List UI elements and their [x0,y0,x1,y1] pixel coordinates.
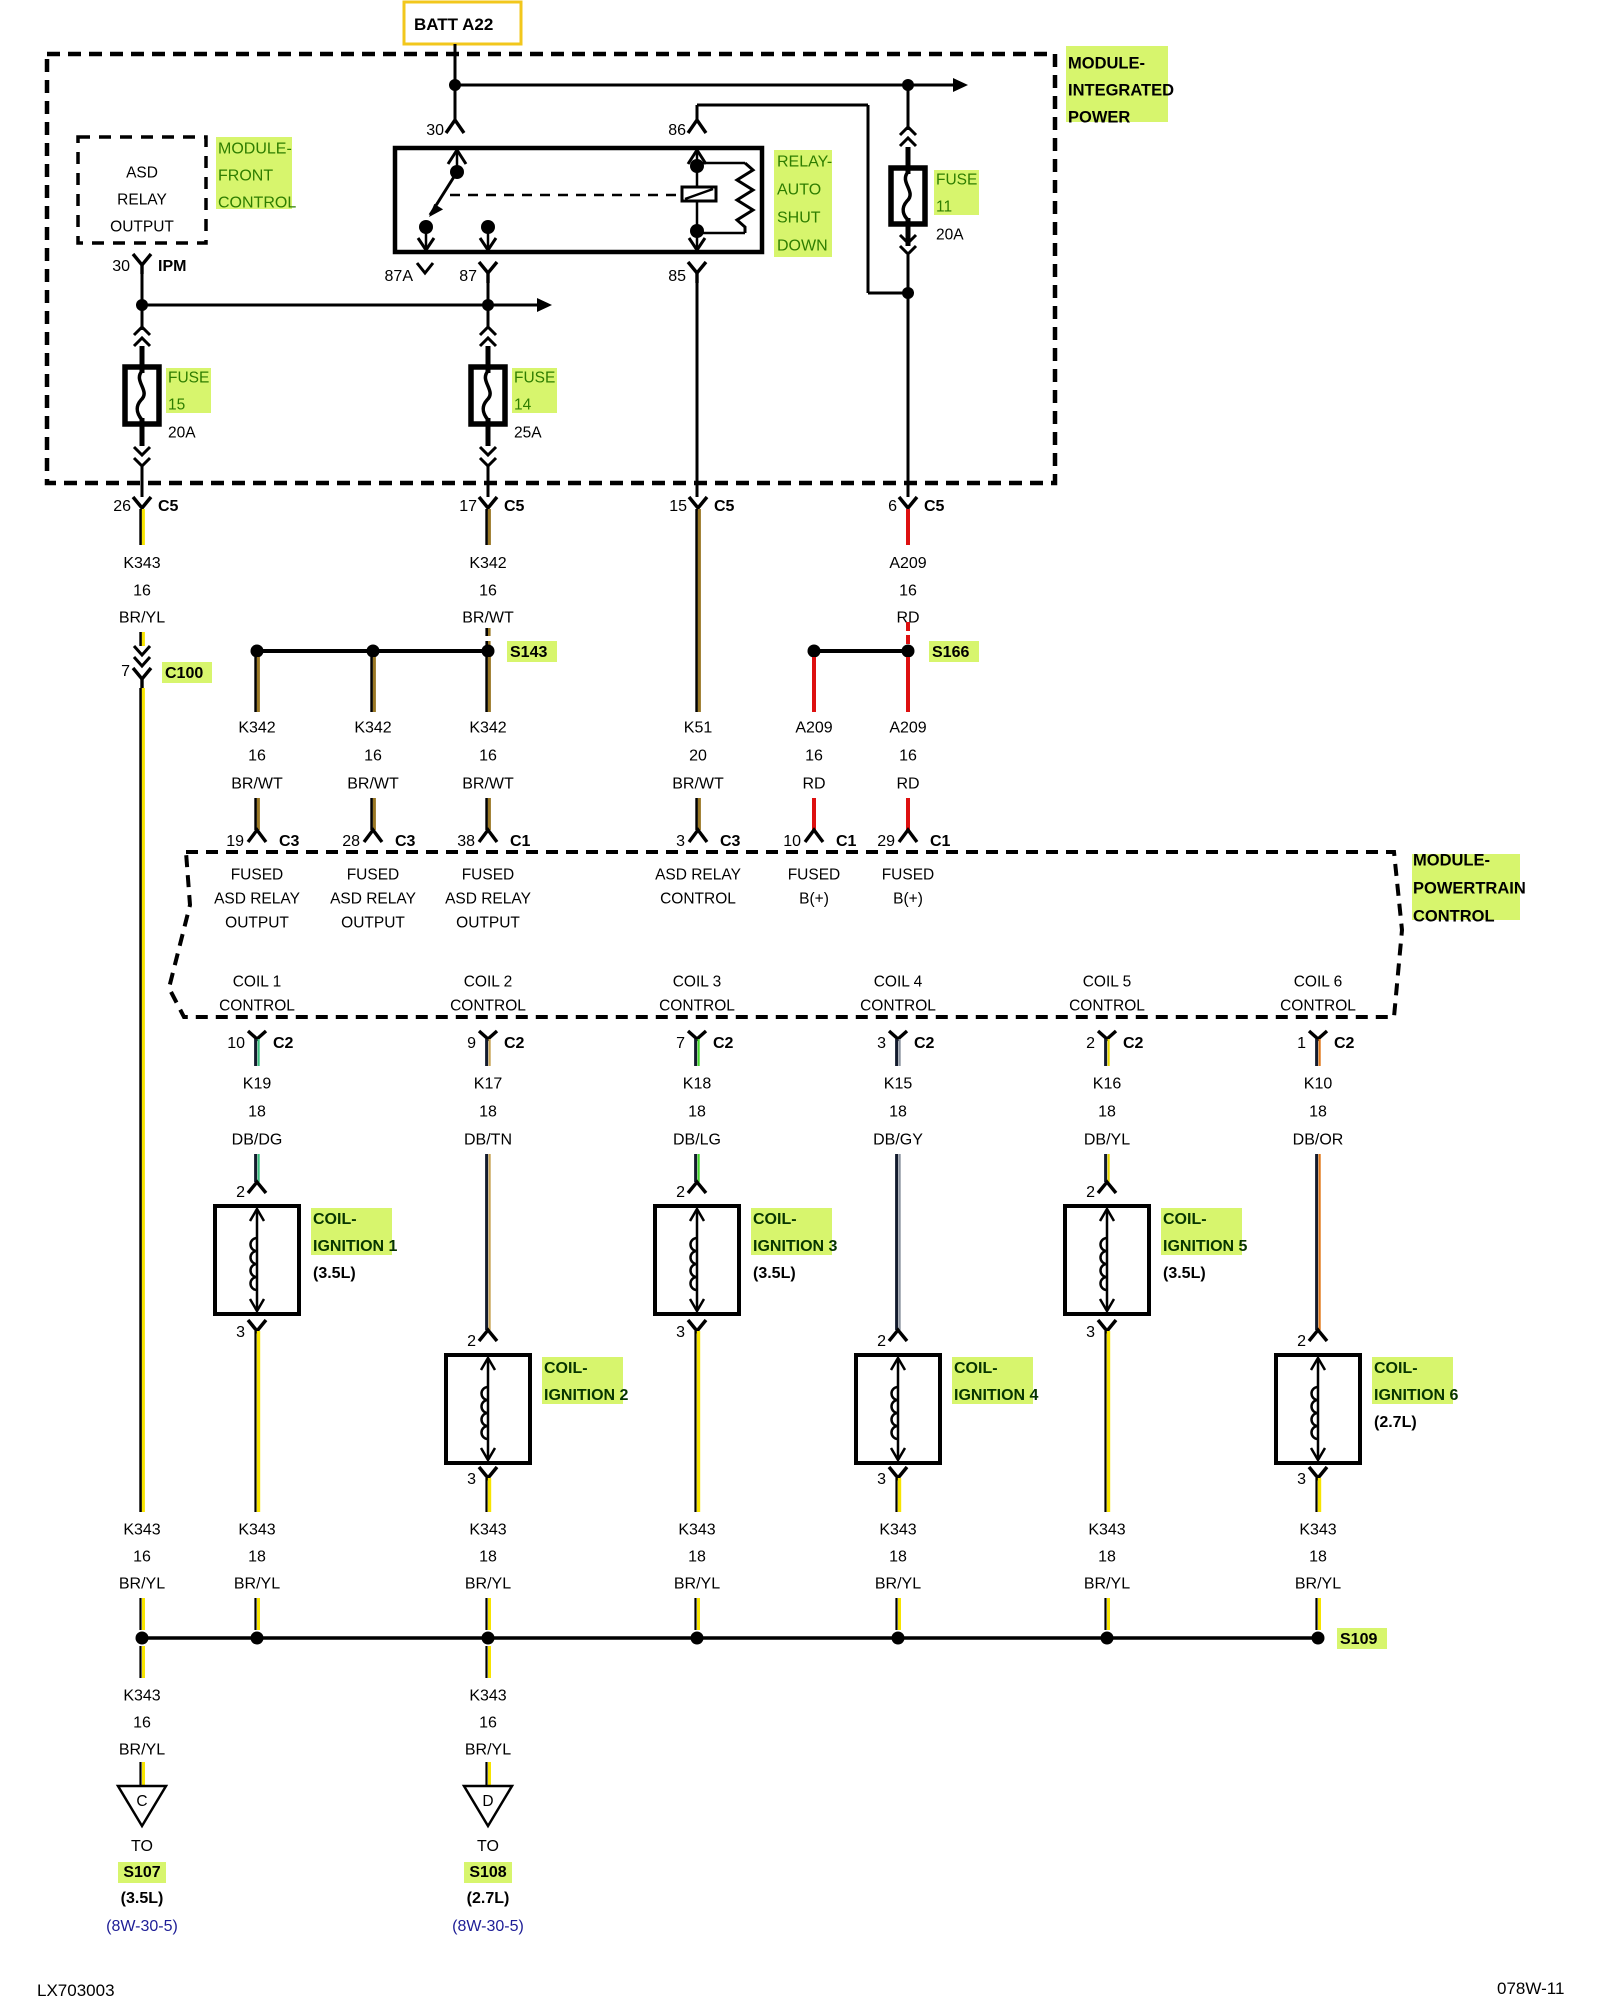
svg-text:COIL 5: COIL 5 [1083,974,1132,991]
svg-text:OUTPUT: OUTPUT [456,915,520,932]
svg-text:DB/LG: DB/LG [673,1132,721,1149]
svg-text:C2: C2 [504,1035,525,1052]
svg-text:S108: S108 [469,1864,506,1881]
svg-text:10: 10 [783,833,801,850]
svg-text:FUSE: FUSE [514,370,555,387]
svg-text:ASD RELAY: ASD RELAY [330,891,416,908]
svg-text:C: C [136,1793,147,1810]
svg-text:C1: C1 [930,833,951,850]
svg-text:BR/YL: BR/YL [119,1742,165,1759]
svg-text:16: 16 [479,583,497,600]
svg-text:3: 3 [467,1471,476,1488]
svg-text:17: 17 [459,498,477,515]
svg-text:C5: C5 [714,498,735,515]
svg-text:K15: K15 [884,1076,913,1093]
svg-text:BR/YL: BR/YL [875,1576,921,1593]
svg-text:COIL-: COIL- [753,1211,797,1228]
svg-text:S109: S109 [1340,1631,1377,1648]
svg-text:COIL 2: COIL 2 [464,974,513,991]
svg-text:3: 3 [1086,1324,1095,1341]
svg-text:B(+): B(+) [799,891,829,908]
svg-text:IGNITION 3: IGNITION 3 [753,1238,838,1255]
svg-text:18: 18 [889,1549,907,1566]
svg-text:CONTROL: CONTROL [1069,998,1145,1015]
svg-text:3: 3 [1297,1471,1306,1488]
svg-text:CONTROL: CONTROL [660,891,736,908]
svg-text:A209: A209 [889,555,926,572]
svg-text:COIL-: COIL- [1374,1360,1418,1377]
svg-text:15: 15 [168,397,185,414]
svg-text:K343: K343 [1299,1522,1336,1539]
svg-text:BR/WT: BR/WT [347,776,399,793]
svg-text:18: 18 [479,1549,497,1566]
svg-text:FUSED: FUSED [231,867,284,884]
svg-text:K17: K17 [474,1076,503,1093]
svg-text:2: 2 [236,1184,245,1201]
svg-text:D: D [482,1793,493,1810]
svg-text:COIL 4: COIL 4 [874,974,923,991]
svg-text:IGNITION 1: IGNITION 1 [313,1238,398,1255]
svg-text:MODULE-: MODULE- [218,141,292,158]
svg-text:FRONT: FRONT [218,168,273,185]
svg-text:(3.5L): (3.5L) [121,1890,164,1907]
svg-text:DB/DG: DB/DG [232,1132,283,1149]
svg-text:078W-11: 078W-11 [1497,1979,1564,1998]
svg-text:BR/YL: BR/YL [119,1576,165,1593]
svg-text:(2.7L): (2.7L) [1374,1414,1417,1431]
svg-text:K16: K16 [1093,1076,1122,1093]
svg-text:K343: K343 [238,1522,275,1539]
svg-text:7: 7 [676,1035,685,1052]
svg-text:3: 3 [676,1324,685,1341]
svg-text:BR/WT: BR/WT [672,776,724,793]
svg-text:C2: C2 [1334,1035,1355,1052]
svg-text:DB/GY: DB/GY [873,1132,923,1149]
svg-text:POWERTRAIN: POWERTRAIN [1413,880,1526,898]
svg-text:10: 10 [227,1035,245,1052]
svg-text:20A: 20A [168,425,196,442]
svg-text:(2.7L): (2.7L) [467,1890,510,1907]
svg-text:ASD RELAY: ASD RELAY [445,891,531,908]
svg-text:RELAY-: RELAY- [777,154,832,171]
svg-text:ASD RELAY: ASD RELAY [655,867,741,884]
svg-text:K342: K342 [469,555,506,572]
svg-text:DOWN: DOWN [777,238,828,255]
svg-text:BR/YL: BR/YL [465,1742,511,1759]
svg-text:3: 3 [236,1324,245,1341]
svg-text:DB/YL: DB/YL [1084,1132,1130,1149]
svg-text:BR/WT: BR/WT [462,776,514,793]
svg-text:16: 16 [479,748,497,765]
svg-text:TO: TO [131,1838,153,1855]
svg-text:28: 28 [342,833,360,850]
svg-text:FUSED: FUSED [347,867,400,884]
svg-text:K18: K18 [683,1076,712,1093]
svg-text:BR/YL: BR/YL [119,610,165,627]
svg-text:FUSE: FUSE [168,370,209,387]
svg-text:25A: 25A [514,425,542,442]
svg-text:9: 9 [467,1035,476,1052]
svg-text:16: 16 [805,748,823,765]
svg-text:30: 30 [426,122,444,139]
svg-text:2: 2 [467,1333,476,1350]
svg-text:CONTROL: CONTROL [860,998,936,1015]
svg-text:(8W-30-5): (8W-30-5) [106,1918,178,1935]
svg-text:18: 18 [1309,1104,1327,1121]
svg-text:20A: 20A [936,227,964,244]
svg-text:29: 29 [877,833,895,850]
svg-text:BR/WT: BR/WT [462,610,514,627]
svg-text:AUTO: AUTO [777,182,821,199]
svg-text:(8W-30-5): (8W-30-5) [452,1918,524,1935]
svg-text:OUTPUT: OUTPUT [341,915,405,932]
svg-text:FUSED: FUSED [788,867,841,884]
svg-text:C2: C2 [1123,1035,1144,1052]
svg-text:18: 18 [1098,1104,1116,1121]
svg-text:IGNITION 4: IGNITION 4 [954,1387,1039,1404]
svg-text:MODULE-: MODULE- [1068,55,1145,73]
svg-text:2: 2 [1297,1333,1306,1350]
svg-text:87: 87 [459,268,477,285]
svg-text:CONTROL: CONTROL [218,195,296,212]
svg-text:18: 18 [1309,1549,1327,1566]
svg-text:OUTPUT: OUTPUT [110,219,174,236]
svg-text:RELAY: RELAY [117,192,167,209]
svg-text:FUSE: FUSE [936,172,977,189]
svg-text:K342: K342 [469,720,506,737]
svg-text:COIL 3: COIL 3 [673,974,722,991]
svg-text:C2: C2 [914,1035,935,1052]
svg-text:16: 16 [899,748,917,765]
svg-text:K343: K343 [1088,1522,1125,1539]
svg-text:C100: C100 [165,665,203,682]
svg-text:14: 14 [514,397,532,414]
svg-text:K343: K343 [123,1522,160,1539]
svg-text:16: 16 [899,583,917,600]
svg-text:A209: A209 [889,720,926,737]
svg-text:IPM: IPM [158,258,186,275]
svg-text:COIL 1: COIL 1 [233,974,282,991]
svg-text:S166: S166 [932,644,969,661]
svg-text:COIL 6: COIL 6 [1294,974,1343,991]
svg-text:K19: K19 [243,1076,272,1093]
svg-text:16: 16 [133,1549,151,1566]
svg-text:C5: C5 [924,498,945,515]
svg-text:CONTROL: CONTROL [219,998,295,1015]
svg-text:TO: TO [477,1838,499,1855]
svg-text:S143: S143 [510,644,547,661]
svg-text:C3: C3 [395,833,416,850]
svg-text:DB/OR: DB/OR [1293,1132,1344,1149]
svg-text:19: 19 [226,833,244,850]
svg-text:C5: C5 [504,498,525,515]
svg-text:COIL-: COIL- [313,1211,357,1228]
svg-text:16: 16 [479,1715,497,1732]
svg-text:C1: C1 [836,833,857,850]
svg-text:K343: K343 [469,1688,506,1705]
svg-text:C2: C2 [273,1035,294,1052]
svg-text:16: 16 [248,748,266,765]
svg-text:BATT A22: BATT A22 [414,15,493,34]
svg-text:POWER: POWER [1068,109,1130,127]
svg-text:BR/YL: BR/YL [674,1576,720,1593]
svg-text:RD: RD [896,776,919,793]
svg-text:15: 15 [669,498,687,515]
svg-text:K342: K342 [354,720,391,737]
svg-text:BR/WT: BR/WT [231,776,283,793]
svg-text:18: 18 [248,1104,266,1121]
svg-text:OUTPUT: OUTPUT [225,915,289,932]
svg-text:(3.5L): (3.5L) [1163,1265,1206,1282]
svg-text:ASD RELAY: ASD RELAY [214,891,300,908]
svg-text:COIL-: COIL- [1163,1211,1207,1228]
svg-text:RD: RD [802,776,825,793]
svg-text:CONTROL: CONTROL [1413,908,1495,926]
svg-text:2: 2 [676,1184,685,1201]
svg-text:A209: A209 [795,720,832,737]
svg-text:INTEGRATED: INTEGRATED [1068,82,1174,100]
svg-text:16: 16 [133,1715,151,1732]
svg-text:38: 38 [457,833,475,850]
svg-text:87A: 87A [385,268,414,285]
svg-text:18: 18 [688,1104,706,1121]
svg-text:3: 3 [877,1471,886,1488]
svg-text:3: 3 [877,1035,886,1052]
svg-text:K343: K343 [879,1522,916,1539]
svg-text:CONTROL: CONTROL [450,998,526,1015]
svg-text:IGNITION 6: IGNITION 6 [1374,1387,1459,1404]
svg-text:86: 86 [668,122,686,139]
svg-text:2: 2 [1086,1035,1095,1052]
svg-text:85: 85 [668,268,686,285]
svg-text:S107: S107 [123,1864,160,1881]
svg-text:SHUT: SHUT [777,210,821,227]
svg-text:18: 18 [248,1549,266,1566]
svg-text:IGNITION 5: IGNITION 5 [1163,1238,1248,1255]
svg-text:11: 11 [936,199,952,216]
svg-text:COIL-: COIL- [954,1360,998,1377]
svg-text:3: 3 [676,833,685,850]
svg-text:BR/YL: BR/YL [1084,1576,1130,1593]
svg-text:DB/TN: DB/TN [464,1132,512,1149]
svg-text:C5: C5 [158,498,179,515]
svg-text:K342: K342 [238,720,275,737]
svg-text:MODULE-: MODULE- [1413,852,1490,870]
svg-text:CONTROL: CONTROL [659,998,735,1015]
svg-text:LX703003: LX703003 [37,1981,115,2000]
svg-text:18: 18 [688,1549,706,1566]
svg-text:C1: C1 [510,833,531,850]
svg-text:2: 2 [877,1333,886,1350]
svg-text:K10: K10 [1304,1076,1333,1093]
svg-text:7: 7 [121,663,130,680]
svg-text:C3: C3 [279,833,300,850]
svg-text:K343: K343 [678,1522,715,1539]
svg-text:K343: K343 [469,1522,506,1539]
svg-text:C3: C3 [720,833,741,850]
svg-text:2: 2 [1086,1184,1095,1201]
svg-text:30: 30 [112,258,130,275]
svg-text:1: 1 [1297,1035,1306,1052]
svg-text:20: 20 [689,748,707,765]
svg-text:C2: C2 [713,1035,734,1052]
svg-text:COIL-: COIL- [544,1360,588,1377]
svg-text:K343: K343 [123,555,160,572]
svg-text:ASD: ASD [126,165,158,182]
svg-text:16: 16 [364,748,382,765]
svg-text:BR/YL: BR/YL [465,1576,511,1593]
svg-text:BR/YL: BR/YL [1295,1576,1341,1593]
svg-text:18: 18 [1098,1549,1116,1566]
svg-text:(3.5L): (3.5L) [753,1265,796,1282]
svg-text:BR/YL: BR/YL [234,1576,280,1593]
svg-text:FUSED: FUSED [462,867,515,884]
svg-text:18: 18 [889,1104,907,1121]
svg-text:16: 16 [133,583,151,600]
svg-text:K343: K343 [123,1688,160,1705]
svg-text:18: 18 [479,1104,497,1121]
svg-text:6: 6 [888,498,897,515]
svg-text:IGNITION 2: IGNITION 2 [544,1387,629,1404]
svg-text:(3.5L): (3.5L) [313,1265,356,1282]
svg-text:26: 26 [113,498,131,515]
svg-text:FUSED: FUSED [882,867,935,884]
svg-text:B(+): B(+) [893,891,923,908]
svg-text:CONTROL: CONTROL [1280,998,1356,1015]
svg-text:K51: K51 [684,720,713,737]
